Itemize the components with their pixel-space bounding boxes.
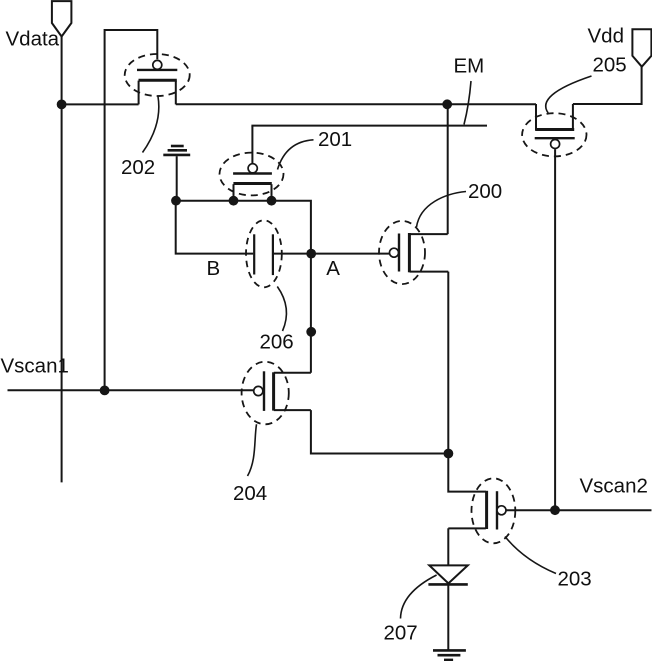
wire Vdata to T202 source — [62, 103, 139, 105]
svg-text:EM: EM — [454, 55, 485, 78]
terminal Vdd — [632, 29, 651, 66]
enclosure ellipse T200 — [379, 221, 425, 284]
svg-text:201: 201 — [318, 128, 352, 151]
ground lower — [433, 650, 466, 660]
wire node B row and down node A column — [176, 201, 311, 373]
svg-text:A: A — [326, 257, 340, 280]
transistor 200 — [390, 233, 449, 272]
junction dot node A column — [306, 327, 316, 337]
svg-text:203: 203 — [558, 568, 592, 591]
transistor 203 — [448, 454, 506, 530]
wire T200 source down — [447, 272, 449, 454]
svg-text:202: 202 — [121, 156, 155, 179]
svg-text:206: 206 — [260, 331, 294, 354]
wire node A to T200 gate — [273, 253, 389, 255]
junction dot Vscan2 x T205 gate — [550, 505, 560, 515]
transistor 205 — [535, 104, 575, 149]
svg-text:207: 207 — [384, 622, 418, 645]
junction dot T201 right leg — [267, 196, 277, 206]
junction dot row wire x T200 column — [442, 99, 452, 109]
wire Vscan1 — [8, 389, 254, 391]
wire node B branch — [176, 201, 254, 254]
wire T205 gate down to Vscan2 — [554, 149, 556, 510]
svg-text:Vdd: Vdd — [588, 25, 624, 48]
capacitor 206 — [254, 234, 273, 275]
svg-text:205: 205 — [593, 54, 627, 77]
enclosure ellipse T205 — [522, 113, 586, 156]
enclosure ellipse C206 — [246, 220, 282, 287]
enclosure ellipse T202 — [125, 54, 190, 96]
svg-text:Vscan2: Vscan2 — [580, 475, 648, 498]
leader 205 — [546, 76, 592, 113]
wire T202 drain to T205 — [176, 103, 536, 105]
diode 207 — [428, 565, 467, 649]
wire Vdata column — [61, 37, 63, 483]
svg-text:204: 204 — [233, 482, 267, 505]
wire Vscan2 — [506, 509, 651, 511]
leader EM — [464, 81, 471, 125]
wire T205 drain to Vdd — [573, 67, 642, 104]
junction dot ground/B — [171, 196, 181, 206]
leader 207 — [401, 575, 437, 619]
wire T204 source down to junction — [311, 410, 448, 453]
transistor 202 — [137, 60, 177, 104]
wire T201 gate up to EM line — [251, 126, 253, 163]
svg-text:Vdata: Vdata — [6, 27, 60, 50]
junction dot Vscan1 x gate line — [100, 386, 110, 396]
junction dot T204/T200/T203 — [444, 449, 454, 459]
leader 201 — [278, 140, 314, 170]
enclosure ellipse T204 — [242, 362, 289, 425]
junction dot T201 left leg — [229, 196, 239, 206]
leader 204 — [248, 424, 257, 476]
transistor 201 — [233, 164, 272, 201]
leader 200 — [417, 192, 467, 228]
leader 206 — [277, 287, 286, 332]
wire T203 source down to diode — [447, 528, 449, 565]
wire EM line — [251, 125, 487, 127]
svg-text:200: 200 — [468, 180, 502, 203]
node A dot — [306, 249, 316, 259]
leader 202 — [143, 97, 159, 153]
enclosure ellipse T203 — [472, 478, 516, 543]
wire T202 gate to Vscan1 — [105, 30, 158, 390]
leader 203 — [505, 537, 556, 574]
wire T200 drain up to row wire — [447, 104, 449, 234]
svg-text:Vscan1: Vscan1 — [1, 355, 69, 378]
ground upper — [163, 146, 190, 155]
svg-text:B: B — [207, 257, 221, 280]
transistor 204 — [254, 371, 311, 411]
wire ground to node B row — [176, 156, 178, 201]
enclosure ellipse T201 — [220, 153, 284, 196]
junction dot Vdata x row wire — [57, 100, 67, 110]
terminal Vdata — [52, 1, 72, 36]
